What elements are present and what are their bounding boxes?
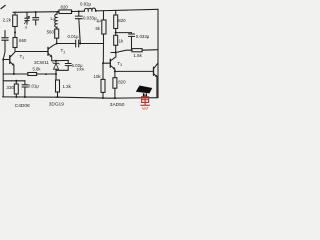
wire T3 base (103, 62, 110, 64)
node bus R9 (102, 97, 104, 99)
node zener top (55, 60, 57, 62)
resistor R9 10k (102, 63, 104, 79)
svg-text:10k: 10k (94, 74, 102, 79)
node bus R13 (57, 96, 59, 98)
transistor T2 (47, 47, 49, 55)
wire stub node N2 (111, 52, 116, 54)
node rail-L1-R3 (57, 11, 59, 13)
transistor T4 (153, 67, 155, 75)
red seal stamp (140, 95, 150, 110)
svg-text:1.3k: 1.3k (63, 84, 72, 89)
resistor R2 660 (13, 38, 17, 48)
node bus C8 (24, 96, 26, 98)
capacitor C8 0.01 (22, 81, 28, 97)
svg-text:820: 820 (61, 5, 69, 10)
node C4 signal (79, 43, 81, 45)
svg-text:0.01μ: 0.01μ (28, 83, 40, 88)
node zener bottom wire74 (55, 73, 57, 75)
node bus R12 (15, 96, 17, 98)
svg-text:1μ: 1μ (96, 18, 101, 23)
paper background (0, 0, 160, 110)
resistor R4 560 (55, 29, 59, 38)
wire N1 to C6 (116, 32, 132, 34)
wire N2 to R8 (116, 50, 132, 52)
svg-text:5.6k: 5.6k (33, 67, 42, 72)
node rail-C4 (78, 10, 80, 12)
resistor R5 5.6k (103, 11, 105, 20)
capacitor C4 0.033 (75, 11, 82, 43)
svg-text:820: 820 (118, 18, 126, 23)
wire right edge supply drop (157, 9, 159, 97)
svg-text:3CW11: 3CW11 (34, 60, 49, 65)
node R1-R2 (14, 31, 16, 33)
node N2 (115, 52, 117, 54)
svg-text:100k: 100k (77, 67, 85, 71)
node T2 collector (56, 43, 58, 45)
node T1 base (2, 59, 4, 61)
inductor L2 0.82u choke in rail (84, 8, 95, 11)
resistor R3 820 in rail (59, 10, 72, 14)
capacitor C7 6.0u (56, 60, 71, 70)
wire T1 collector to T2 base (15, 51, 48, 53)
node C6 join (131, 49, 133, 51)
resistor R11 5.6k horizontal (28, 73, 37, 76)
capacitor C5 0.01 coupling (76, 40, 79, 47)
transistor T1 (9, 56, 11, 64)
svg-text:1k: 1k (119, 38, 124, 43)
svg-text:3DG19: 3DG19 (49, 102, 65, 108)
resistor R6 820 supply (115, 10, 117, 15)
node R12 top (15, 80, 17, 82)
wire emitter bus y74 (3, 73, 28, 75)
zener diode D1 3CW11 (55, 61, 57, 64)
svg-text:2.2k: 2.2k (3, 18, 12, 23)
svg-text:560: 560 (47, 30, 55, 35)
resistor R13 1.3k (56, 74, 58, 80)
svg-text:820: 820 (118, 80, 126, 85)
wire top supply rail left segment (13, 11, 59, 14)
svg-text:C4D08: C4D08 (15, 103, 30, 109)
wire signal node to coupling cap (57, 43, 76, 45)
resistor R8 1.5k (132, 49, 142, 52)
svg-text:1.5k: 1.5k (134, 53, 143, 58)
node rail-coil right (95, 10, 97, 12)
resistor R1 2.2k (14, 12, 16, 15)
ink blot artifact (136, 86, 153, 98)
svg-text:660: 660 (19, 38, 27, 43)
wire left vertical to ground (2, 60, 4, 98)
wire lower-left branch y81 (3, 80, 25, 82)
node T1 emitter (13, 73, 15, 75)
node N1 (115, 32, 117, 34)
inductor L1 (55, 12, 57, 29)
resistor R7 1k (114, 35, 118, 45)
capacitor C1 input coupling (2, 31, 8, 60)
svg-text:0.82μ: 0.82μ (80, 1, 92, 6)
capacitor C3 tank (33, 12, 39, 25)
svg-text:0.033μ: 0.033μ (83, 15, 97, 20)
svg-text:3AD50: 3AD50 (110, 102, 125, 108)
node T3 emitter-T4 base (114, 70, 116, 72)
wire ground bus (3, 97, 159, 98)
wire T2 emitter to zener node (52, 59, 68, 61)
capacitor C2 trimmer (25, 12, 29, 24)
transistor T3 (109, 59, 111, 67)
capacitor C6 0.033 (129, 33, 135, 49)
svg-text:d: d (25, 25, 27, 29)
resistor R12 330 (15, 81, 17, 84)
pen tick top-left corner (1, 5, 5, 8)
resistor R10 820 T3 emitter (113, 78, 117, 89)
node rail-R3 right (71, 11, 73, 13)
node T3 base (102, 62, 104, 64)
node wire74 mid (45, 73, 47, 75)
svg-text:0.033μ: 0.033μ (136, 34, 150, 39)
node bus R10 (114, 97, 116, 99)
wire T4 base (115, 70, 154, 72)
node rail-C3 (35, 11, 37, 13)
junction dots (2, 10, 132, 99)
svg-text:0.01μ: 0.01μ (68, 34, 80, 39)
svg-text:330: 330 (6, 85, 14, 90)
wire top supply rail right segment (72, 9, 159, 11)
